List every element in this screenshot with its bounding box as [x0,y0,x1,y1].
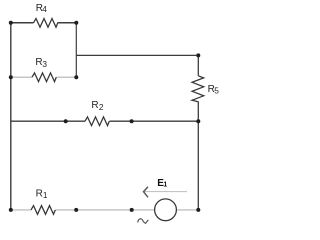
svg-text:1: 1 [163,182,167,189]
node dot: R2 right [130,119,134,123]
wire: feed to R5 (top right horizontal) [76,54,198,56]
node dot: R2 right rail junction [196,119,200,123]
svg-text:5: 5 [214,86,219,96]
resistor R1 [31,206,55,215]
node dot: bottom mid-left [74,208,78,212]
svg-text:3: 3 [42,59,47,69]
svg-text:R: R [91,100,98,111]
node dot: top-left [9,21,13,25]
resistor R4 [34,19,58,28]
wire: left vertical rail [10,23,12,210]
wire: R2 branch horizontal [11,120,199,122]
wire: bottom branch horizontal (gray) [11,209,199,211]
source E1 (AC) circle [155,199,177,221]
svg-text:4: 4 [42,4,47,14]
resistor R2 [85,117,109,126]
svg-text:R: R [36,189,43,200]
node dot: R2 left [64,119,68,123]
wire: right vertical rail upper [197,55,199,75]
wire: R4 top branch horizontal [11,22,77,24]
wire: R3 branch horizontal (gray) [11,76,77,78]
node dot: R3 left [9,75,13,79]
wire: right vertical rail lower [197,101,199,209]
node dot: top-right corner [196,53,200,57]
resistor R5 [192,76,204,102]
node dot: R4 right [74,21,78,25]
svg-text:1: 1 [43,190,48,200]
node dot: bottom-left [9,208,13,212]
AC tilde symbol [138,219,149,224]
wire: middle vertical rail (R4/R3 right ends) [75,23,77,77]
resistor R3 [32,73,56,82]
node dot: R3 right [74,75,78,79]
node dot: bottom-right [196,208,200,212]
svg-text:2: 2 [99,102,104,112]
arrow for E1 (pointing left) [144,191,187,193]
node dot: bottom mid-right [130,208,134,212]
